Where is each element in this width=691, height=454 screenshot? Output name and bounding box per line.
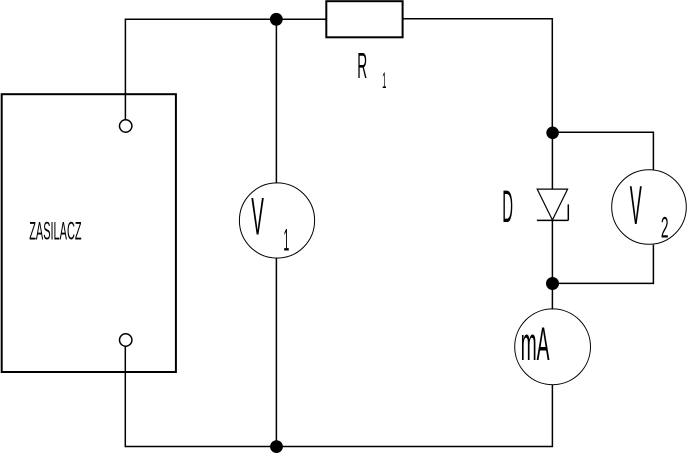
wire: top junction right to V2	[553, 132, 654, 170]
voltmeter V2	[612, 170, 687, 245]
svg-text:ZASILACZ: ZASILACZ	[29, 219, 82, 246]
voltmeter V1	[239, 183, 314, 258]
svg-text:mA: mA	[521, 317, 550, 371]
terminal bottom (minus)	[120, 334, 132, 346]
resistor R1	[326, 1, 402, 37]
node junction top of V1	[270, 13, 283, 26]
svg-text:1: 1	[283, 222, 289, 257]
wire: junction down to V1	[275, 19, 277, 183]
wire: V1 down to bottom rail	[275, 258, 277, 447]
node junction below diode	[546, 277, 559, 290]
svg-text:1: 1	[382, 69, 386, 93]
wire: bottom rail	[125, 446, 552, 448]
wire: bottom terminal down to bottom rail	[124, 347, 126, 448]
svg-text:R: R	[357, 45, 367, 86]
ammeter mA	[515, 309, 591, 385]
svg-text:V: V	[630, 174, 642, 236]
wire: top terminal up to top rail	[124, 19, 126, 119]
svg-text:D: D	[502, 182, 513, 233]
svg-text:2: 2	[661, 211, 669, 244]
wire: junction down to mA meter	[551, 284, 553, 310]
node junction bottom of V1	[270, 440, 283, 453]
svg-text:V: V	[251, 188, 264, 247]
diode D	[537, 189, 568, 220]
wire: V2 bottom down and left to junction	[553, 245, 654, 284]
wire: top rail left segment to resistor	[125, 18, 327, 20]
wire: diode down to junction	[551, 220, 553, 283]
wire: resistor right to top-right corner and down	[403, 19, 553, 133]
wire: junction down to diode	[551, 133, 553, 189]
node junction above diode	[546, 127, 559, 140]
power supply box ZASILACZ	[2, 94, 176, 372]
wire: mA down to bottom rail	[551, 385, 553, 448]
terminal top (plus)	[120, 120, 132, 132]
